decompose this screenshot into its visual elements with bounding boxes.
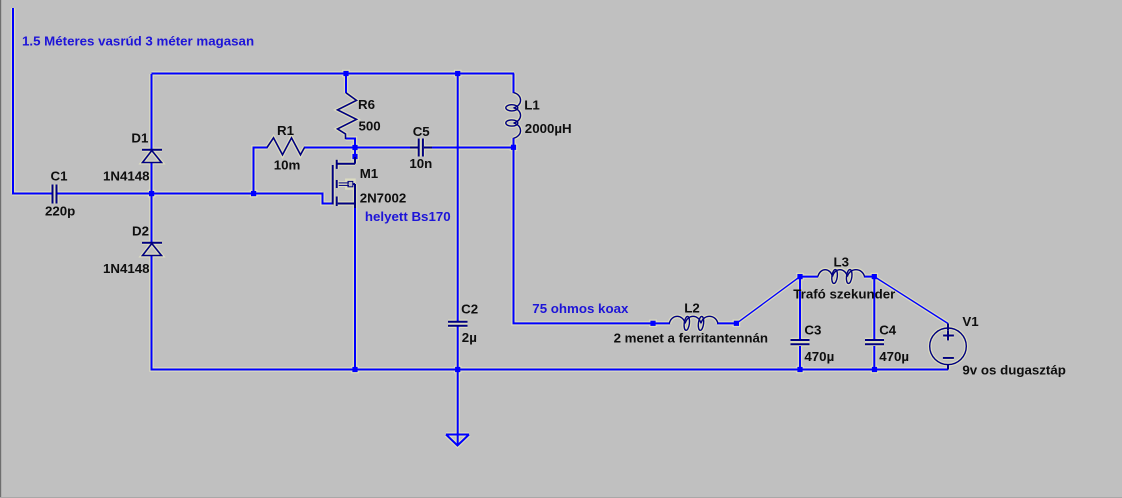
wire koax to L2 — [653, 322, 670, 324]
wire R1 right to drain node — [304, 147, 355, 149]
decorative halo underlay (jpeg-style fringe around wires) — [12, 8, 966, 446]
svg-text:M1: M1 — [360, 166, 379, 181]
junction R1 gate branch — [251, 191, 256, 196]
wire L1 top lead — [513, 74, 515, 94]
svg-text:C1: C1 — [51, 169, 69, 184]
wire L3 right lead — [864, 276, 874, 278]
junction ground rail / M1 source — [352, 367, 357, 372]
junction ground rail / C2 — [455, 367, 460, 372]
junction L2 left pin — [650, 321, 655, 326]
wire C2 bottom to rail — [457, 326, 459, 370]
wire R1 left lead — [254, 148, 268, 194]
wire L1 bottom to koax — [514, 138, 654, 323]
junction top rail / C2 branch — [455, 71, 460, 76]
resistor R1 — [267, 138, 305, 155]
svg-text:C2: C2 — [461, 302, 478, 317]
svg-text:1.5 Méteres vasrúd 3 méter mag: 1.5 Méteres vasrúd 3 méter magasan — [22, 34, 254, 49]
capacitor C4 — [865, 340, 884, 344]
junction drain node lower — [352, 154, 357, 159]
diode D2 — [142, 243, 162, 256]
svg-text:C3: C3 — [804, 322, 821, 337]
wire C5 to L1 node — [424, 147, 514, 149]
wire C3 top lead — [799, 277, 801, 339]
svg-text:2µ: 2µ — [462, 330, 477, 345]
junction drain node upper — [352, 145, 357, 150]
svg-text:C4: C4 — [879, 322, 897, 337]
window bottom border — [0, 497, 1122, 498]
svg-text:2 menet a ferritantennán: 2 menet a ferritantennán — [614, 331, 768, 346]
svg-text:R1: R1 — [277, 123, 295, 138]
inductor L2 — [669, 316, 718, 331]
svg-text:220p: 220p — [45, 204, 75, 219]
junction L1 bottom node — [511, 145, 516, 150]
wire L2 right lead — [717, 322, 736, 324]
diode D1 — [142, 150, 162, 163]
junction ground rail / C4 — [872, 367, 877, 372]
capacitor C1 — [53, 185, 57, 204]
inductor L3 — [818, 269, 865, 284]
svg-text:C5: C5 — [413, 124, 431, 139]
wire antenna input vertical — [12, 8, 14, 194]
wire R6 bottom jog — [346, 139, 356, 148]
svg-text:D1: D1 — [131, 131, 149, 146]
wire C4 top lead — [873, 277, 875, 339]
svg-text:D2: D2 — [132, 224, 149, 239]
window left border — [0, 0, 1, 498]
svg-text:L1: L1 — [524, 98, 540, 113]
resistor R6 — [338, 93, 357, 139]
svg-text:Trafó szekunder: Trafó szekunder — [793, 287, 895, 302]
wire C1 to node N002 — [57, 193, 323, 195]
wire D2 to ground rail — [152, 256, 949, 370]
wire top rail to C2 vertical — [457, 74, 459, 322]
wire diagonal L3 right to V1 — [874, 277, 948, 324]
svg-text:2N7002: 2N7002 — [360, 190, 407, 205]
junction ground rail / C3 — [797, 367, 802, 372]
capacitor C2 — [448, 322, 468, 326]
svg-text:R6: R6 — [358, 97, 375, 112]
wire D1 to node — [151, 163, 153, 194]
wire drain node to C5 — [355, 147, 418, 149]
wire M1 source to rail — [354, 208, 356, 370]
nmos M1 — [333, 157, 355, 208]
capacitor C3 — [791, 340, 810, 344]
svg-text:1N4148: 1N4148 — [103, 169, 150, 184]
svg-text:75 ohmos koax: 75 ohmos koax — [532, 301, 629, 316]
svg-text:10m: 10m — [274, 157, 301, 172]
wire node to D2 — [151, 194, 153, 244]
wire gate jog — [323, 193, 334, 204]
svg-text:helyett Bs170: helyett Bs170 — [365, 209, 451, 224]
svg-text:1N4148: 1N4148 — [103, 261, 150, 276]
wire R6 top lead — [345, 74, 347, 94]
wire drain node — [354, 148, 356, 158]
svg-text:500: 500 — [359, 118, 381, 133]
wire C3 bottom lead — [799, 346, 801, 370]
voltage source V1 — [930, 324, 967, 370]
svg-text:470µ: 470µ — [804, 349, 834, 364]
svg-text:L3: L3 — [834, 254, 850, 269]
svg-text:2000µH: 2000µH — [525, 121, 572, 136]
svg-text:V1: V1 — [962, 314, 979, 329]
wire D1 branch vertical — [151, 74, 153, 150]
svg-text:10n: 10n — [409, 156, 432, 171]
inductor L1 — [506, 93, 521, 139]
ground — [446, 435, 469, 446]
wire rail to ground symbol — [457, 370, 459, 446]
wire L3 left lead — [800, 276, 818, 278]
wire C4 bottom lead — [873, 346, 875, 370]
svg-text:9v os dugasztáp: 9v os dugasztáp — [962, 362, 1065, 377]
junction input node at D1/D2 — [149, 191, 154, 196]
svg-text:470µ: 470µ — [879, 349, 909, 364]
wire diagonal L2 to L3 left — [736, 277, 800, 324]
junction L2 right pin — [734, 321, 739, 326]
endhalo — [12, 8, 966, 446]
junction L3 left / C3 — [797, 274, 802, 279]
junction top rail / R6 — [343, 71, 348, 76]
wire antenna to C1 — [12, 193, 52, 195]
svg-text:L2: L2 — [684, 300, 700, 315]
junction L3 right / C4 — [872, 274, 877, 279]
wire top rail — [152, 73, 515, 75]
capacitor C5 — [410, 139, 432, 157]
